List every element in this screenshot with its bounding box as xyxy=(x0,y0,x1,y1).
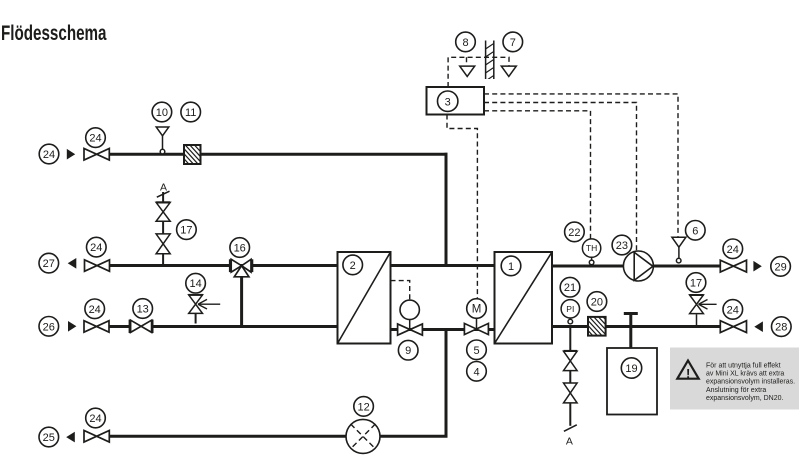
motor valve 5 (M) xyxy=(464,299,488,335)
flow arrow right (to 29) xyxy=(753,261,761,272)
node 24 (valve label, row 1) xyxy=(86,128,106,148)
wire pipe upper right (HX1 to valve 24) xyxy=(552,265,720,268)
node 8 (label) xyxy=(456,32,476,52)
wall (hatched) xyxy=(481,40,499,84)
heat exchanger 2 xyxy=(338,252,391,344)
wire capillary HX2 to valve 9 actuator (dashed) xyxy=(391,281,410,300)
node 24 (valve label, row 4) xyxy=(86,408,106,428)
svg-text:24: 24 xyxy=(90,242,102,254)
balancing valve 13 xyxy=(130,320,153,333)
svg-text:Anslutning för extra: Anslutning för extra xyxy=(706,387,766,394)
svg-text:24: 24 xyxy=(43,149,55,161)
note text xyxy=(706,362,795,402)
drain valve group below PI (to A) xyxy=(564,327,578,432)
svg-text:M: M xyxy=(472,304,482,316)
svg-text:A: A xyxy=(160,182,167,194)
wire branch from valve 16 down to row 3 xyxy=(240,277,243,327)
node 27 (connection, row 2 outlet) xyxy=(39,253,59,273)
node 17 (label, right) xyxy=(686,273,706,293)
SECTION-ROW2 xyxy=(39,182,338,327)
flow arrow left (row 4) xyxy=(66,432,75,443)
pressure relief valve 17 (right) xyxy=(689,295,716,327)
sensor PI (pressure gauge) xyxy=(561,300,579,324)
svg-text:11: 11 xyxy=(185,107,196,119)
node 28 (connection) xyxy=(772,317,792,337)
wire pipe lower right (HX1 to valve 24) xyxy=(552,325,720,328)
SECTION-RIGHTTOP xyxy=(552,221,790,282)
svg-text:Flödesschema: Flödesschema xyxy=(1,22,107,45)
svg-text:1: 1 xyxy=(508,261,514,273)
pump 23 xyxy=(623,251,653,281)
flow arrow left (from 28) xyxy=(754,321,763,332)
svg-text:22: 22 xyxy=(568,227,580,239)
svg-text:PI: PI xyxy=(566,304,574,314)
svg-text:23: 23 xyxy=(616,240,628,252)
node 29 (connection) xyxy=(771,257,791,277)
wire dashed: control 3 to sensor TH xyxy=(484,111,591,239)
shut-off valve 24 (row 3) xyxy=(84,321,109,333)
svg-text:24: 24 xyxy=(727,244,739,256)
wire pipe upper middle (HX2 to HX1) xyxy=(391,264,495,267)
safety valve group 17 (stack with drain A) xyxy=(156,191,170,265)
svg-text:5: 5 xyxy=(473,345,479,357)
sensor TH (thermometer) xyxy=(582,239,600,265)
SECTION-WARN xyxy=(670,348,799,410)
SECTION-RIGHTBOT xyxy=(552,273,791,448)
node 22 (label) xyxy=(565,222,585,242)
SECTION-CONTROL xyxy=(427,32,679,298)
shut-off valve 24 (row 4) xyxy=(84,431,109,443)
node 23 (label) xyxy=(612,235,632,255)
flow arrow left (row 2) xyxy=(68,258,77,269)
wire branch down to expansion vessel 19 xyxy=(629,327,632,349)
node 25 (connection, row 4 outlet) xyxy=(39,427,59,447)
mixing device 12 (circle with dashed cross) xyxy=(346,419,380,453)
wire dashed: control 3 to sensors 8 and 7 xyxy=(448,57,509,87)
control unit 3 xyxy=(427,87,485,115)
note box (grey) xyxy=(670,348,799,410)
node 11 (label) xyxy=(181,102,201,122)
svg-text:24: 24 xyxy=(727,304,739,316)
node 6 (label) xyxy=(686,221,706,241)
three-way valve 16 xyxy=(230,259,252,277)
shut-off valve 24 (row 1) xyxy=(84,149,109,161)
svg-text:10: 10 xyxy=(156,107,168,119)
filter 20 (strainer) xyxy=(569,315,627,338)
heat exchanger 1 xyxy=(495,252,553,344)
warning symbol xyxy=(677,361,698,381)
node 24 (connection, row 1 inlet) xyxy=(39,144,59,164)
wire dashed: control 3 to air vent 6 line xyxy=(484,94,678,237)
svg-text:7: 7 xyxy=(510,37,516,49)
flow arrow right (row 1) xyxy=(67,149,75,160)
wire trunk down from row 1 xyxy=(445,153,448,266)
svg-text:16: 16 xyxy=(234,243,246,255)
node 26 (connection, row 3 inlet) xyxy=(39,317,59,337)
flow arrow right (row 3) xyxy=(68,321,76,332)
wire pipe row 3 (valve 24 to valve 13) xyxy=(109,325,130,328)
node 24 (valve label, row 2) xyxy=(87,237,107,257)
node 24 (valve label, right top) xyxy=(723,239,743,259)
svg-text:3: 3 xyxy=(445,96,451,108)
svg-text:17: 17 xyxy=(180,225,192,237)
svg-text:24: 24 xyxy=(89,133,101,145)
SECTION-ROW3 xyxy=(39,273,338,336)
shut-off valve 24 (row 2) xyxy=(85,260,110,272)
svg-text:8: 8 xyxy=(462,37,468,49)
expansion vessel 19 xyxy=(607,348,657,415)
svg-text:av Mini XL krävs att extra: av Mini XL krävs att extra xyxy=(706,371,784,378)
svg-text:2: 2 xyxy=(350,260,356,272)
svg-text:24: 24 xyxy=(89,304,101,316)
svg-text:28: 28 xyxy=(775,322,787,334)
svg-text:expansionsvolym installeras.: expansionsvolym installeras. xyxy=(706,379,795,386)
node 17 (label) xyxy=(177,220,197,240)
capped connection DN20 (tee up) xyxy=(624,314,638,327)
svg-text:6: 6 xyxy=(692,225,698,237)
air vent 10 xyxy=(156,127,169,154)
svg-text:13: 13 xyxy=(137,304,149,316)
node 5 (label) xyxy=(467,340,487,360)
node 7 (label) xyxy=(503,32,523,52)
node 16 (label) xyxy=(230,238,250,258)
node 4 (label) xyxy=(467,362,487,382)
node 12 (label) xyxy=(354,397,374,417)
node 13 (label) xyxy=(133,299,153,319)
svg-text:26: 26 xyxy=(43,321,55,333)
svg-text:TH: TH xyxy=(586,243,597,253)
node 2 (label) xyxy=(343,255,363,275)
wire dashed: control 3 to motor valve M xyxy=(447,115,477,299)
wire pipe lower middle (HX2 to HX1) xyxy=(391,328,495,331)
sensor 7 (outdoor sensor) xyxy=(501,66,516,76)
node 24 (valve label, right bottom) xyxy=(723,300,743,320)
node 1 (label) xyxy=(501,256,521,276)
node 19 (label) xyxy=(621,358,641,378)
SECTION-ROW1 xyxy=(39,102,447,265)
wire pipe row 4 xyxy=(109,435,447,438)
node 9 (label) xyxy=(398,340,418,360)
svg-text:För att utnyttja full effekt: För att utnyttja full effekt xyxy=(706,362,781,369)
shut-off valve 24 (right bottom) xyxy=(720,321,746,333)
wire pipe row 2 xyxy=(110,264,338,267)
wire pipe row 3 (valve 13 to HX2) xyxy=(153,325,338,328)
SECTION-MIDDLE xyxy=(338,252,553,438)
control valve 9 with actuator xyxy=(398,300,423,335)
svg-text:14: 14 xyxy=(189,278,201,290)
svg-text:17: 17 xyxy=(690,278,702,290)
wire pipe row 1 xyxy=(109,153,447,156)
sensor 8 (indoor sensor) xyxy=(460,66,475,76)
svg-text:25: 25 xyxy=(43,432,55,444)
svg-text:expansionsvolym, DN20.: expansionsvolym, DN20. xyxy=(706,395,783,402)
filter 11 (strainer) xyxy=(165,143,223,166)
svg-text:!: ! xyxy=(686,366,690,381)
svg-text:24: 24 xyxy=(89,413,101,425)
SECTION-ROW4 xyxy=(39,397,448,454)
svg-text:9: 9 xyxy=(405,345,411,357)
svg-text:29: 29 xyxy=(774,261,786,273)
svg-text:12: 12 xyxy=(357,401,369,413)
svg-text:20: 20 xyxy=(591,297,603,309)
shut-off valve 24 (right top) xyxy=(720,260,746,272)
node 24 (valve label, row 3) xyxy=(85,299,105,319)
svg-text:21: 21 xyxy=(564,282,576,294)
svg-text:27: 27 xyxy=(43,258,55,270)
node 20 (label) xyxy=(587,292,607,312)
pressure regulator 14 xyxy=(188,295,220,324)
node 14 (label) xyxy=(186,273,206,293)
svg-text:4: 4 xyxy=(473,366,479,378)
node 21 (label) xyxy=(560,277,580,297)
svg-text:A: A xyxy=(566,436,573,448)
air vent 6 xyxy=(672,237,686,263)
node 10 (label) xyxy=(152,102,172,122)
node 3 (label) xyxy=(438,91,458,111)
wire trunk down to row 4 xyxy=(445,330,448,438)
wire dashed: control 3 to pump 23 xyxy=(484,103,637,251)
svg-text:19: 19 xyxy=(625,363,637,375)
